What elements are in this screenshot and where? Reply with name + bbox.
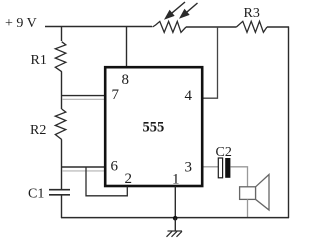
wire ghost under pin 6 wire — [62, 170, 105, 172]
capacitor C2 negative plate (hollow) — [218, 158, 222, 178]
LDR light arrow 2 — [181, 3, 198, 18]
svg-text:4: 4 — [185, 88, 193, 104]
wire bottom ground rail — [61, 217, 289, 219]
wire ghost under pin 7 wire — [62, 98, 105, 100]
svg-text:555: 555 — [143, 120, 165, 136]
resistor R3 body — [236, 21, 267, 32]
wire C1 to ground rail — [61, 195, 63, 218]
svg-text:C1: C1 — [28, 187, 44, 202]
capacitor C2 positive plate (solid) — [225, 158, 230, 178]
svg-text:R3: R3 — [244, 6, 260, 21]
photoresistor LDR body — [153, 21, 187, 32]
svg-text:2: 2 — [125, 171, 133, 187]
svg-text:8: 8 — [122, 72, 130, 88]
svg-text:1: 1 — [172, 172, 180, 188]
wire pin 1 to ground rail — [174, 187, 176, 219]
wire speaker to ground rail — [247, 199, 249, 218]
resistor R1 body — [55, 42, 66, 72]
wire top rail between LDR and R3 — [186, 26, 236, 28]
speaker LS1 magnet box — [240, 187, 256, 200]
svg-text:R1: R1 — [31, 53, 47, 68]
junction dot pin1/ground — [173, 216, 178, 221]
wire pin 3 to C2 — [204, 166, 219, 168]
svg-text:7: 7 — [112, 87, 120, 103]
wire junction to ground symbol — [174, 218, 176, 231]
wire pin 2 tie to pin 6 net — [86, 167, 127, 196]
wire +9V rail down to pin 8 — [126, 27, 128, 67]
wire node B to pin 6 — [62, 166, 106, 168]
capacitor C1 plates — [49, 190, 70, 195]
wire top +9V rail left segment — [45, 26, 152, 28]
ground symbol — [167, 231, 183, 237]
wire node A to pin 7 — [62, 95, 106, 97]
wire +9V rail down to R1 — [61, 27, 63, 42]
op IC 555 timer U1 box — [105, 67, 202, 186]
wire top rail right of R3 to corner — [267, 26, 289, 28]
svg-text:R2: R2 — [30, 123, 46, 138]
wire C2 to speaker — [230, 167, 247, 187]
speaker LS1 cone — [256, 175, 269, 211]
LDR light arrow 1 — [166, 2, 186, 19]
wire R2 to node B — [61, 140, 63, 190]
wire right edge vertical (R3 to ground rail) — [288, 27, 290, 219]
svg-text:+ 9 V: + 9 V — [5, 16, 37, 31]
wire LDR/R3 node down to pin 4 — [204, 27, 218, 98]
wire R1 to node A — [61, 72, 63, 110]
svg-text:3: 3 — [185, 160, 193, 176]
svg-text:6: 6 — [111, 159, 119, 175]
resistor R2 body — [55, 109, 66, 140]
